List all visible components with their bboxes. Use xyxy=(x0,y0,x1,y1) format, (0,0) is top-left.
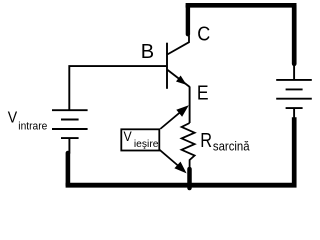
transistor collector lead xyxy=(168,36,190,55)
svg-text:B: B xyxy=(141,41,154,63)
label V_intrare xyxy=(8,110,48,133)
resistor R_sarcina zigzag xyxy=(182,123,195,170)
label V_iesire (inside output box) xyxy=(124,128,159,150)
svg-text:V: V xyxy=(8,110,18,127)
svg-text:intrare: intrare xyxy=(18,120,47,132)
arrow from output box to ground node xyxy=(160,150,187,174)
svg-text:E: E xyxy=(197,81,209,104)
wire: emitter node vertical to resistor top xyxy=(189,87,191,124)
svg-text:ieşire: ieşire xyxy=(134,139,159,150)
transistor (NPN) base bar xyxy=(166,43,168,89)
svg-text:sarcină: sarcină xyxy=(213,139,250,154)
battery (supply, right side) xyxy=(276,64,312,118)
svg-text:V: V xyxy=(124,128,133,144)
svg-text:R: R xyxy=(200,130,212,152)
transistor emitter arrowhead xyxy=(176,76,187,85)
transistor emitter lead xyxy=(168,70,190,87)
wire: thick right rail lower segment xyxy=(292,117,297,187)
svg-text:C: C xyxy=(197,23,210,45)
label E (emitter) xyxy=(197,81,209,104)
battery V_intrare (input source) xyxy=(52,110,88,153)
wire: thick right rail upper segment xyxy=(292,5,297,64)
label B (base) xyxy=(141,41,154,63)
wire: thick bottom return rail xyxy=(66,183,297,188)
wire: base wire from input battery to transistor base xyxy=(69,66,166,109)
output pointer box V_iesire xyxy=(121,129,159,150)
wire: thick collector stub from top rail xyxy=(186,5,190,34)
label R_sarcina xyxy=(200,130,250,153)
label C (collector) xyxy=(197,23,210,45)
wire: thick top supply rail xyxy=(186,3,297,8)
wire: thick resistor-to-ground stub (junction) xyxy=(187,169,192,188)
wire: thick left stub below input battery xyxy=(66,153,71,185)
arrow from output box to emitter node xyxy=(160,105,189,129)
